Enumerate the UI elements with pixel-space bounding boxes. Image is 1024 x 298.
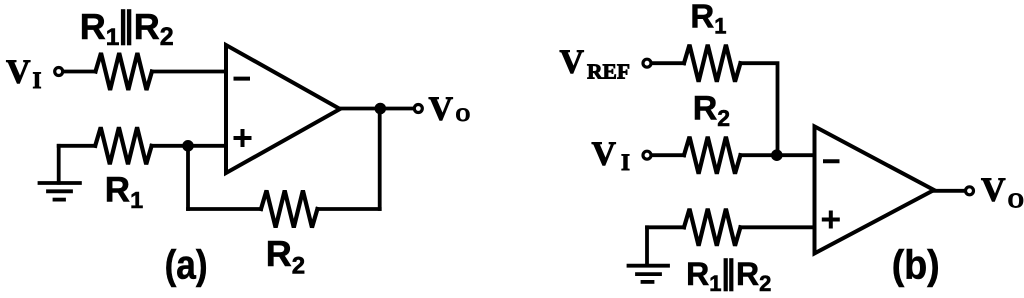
- wire: R1||R2 to non-inverting input (b): [740, 225, 814, 229]
- svg-text:O: O: [456, 105, 471, 126]
- resistor R2 (a) feedback: [261, 191, 317, 228]
- minus sign (a): [236, 77, 249, 81]
- wire: resistor to op-amp inverting input (a): [152, 70, 226, 74]
- svg-text:R1: R1: [105, 171, 143, 213]
- ground (a): [57, 146, 61, 183]
- svg-text:V: V: [429, 90, 454, 127]
- terminal VI (b): [643, 151, 651, 159]
- svg-text:R2: R2: [736, 256, 771, 296]
- svg-text:(a): (a): [165, 242, 208, 288]
- resistor R1 (b): [684, 45, 740, 82]
- wire: Vi to R1||R2 resistor (a): [63, 70, 96, 74]
- svg-text:V: V: [560, 43, 585, 80]
- node: summing junction (b): [771, 149, 783, 161]
- terminal VO (b): [966, 187, 974, 195]
- wire: feedback bottom left (a): [188, 207, 261, 211]
- node: + input junction (a): [182, 140, 194, 152]
- resistor R2 (b): [684, 137, 740, 174]
- minus sign (b): [825, 159, 838, 163]
- svg-text:R2: R2: [266, 233, 305, 280]
- wire: ground to R1 (a): [59, 144, 95, 148]
- wire: R2 to inverting input (b): [740, 153, 814, 157]
- svg-text:REF: REF: [587, 60, 630, 84]
- wire: VI to R2 (b): [652, 153, 685, 157]
- wire: VREF to R1 (b): [652, 61, 685, 65]
- terminal VO (a): [414, 105, 422, 113]
- plus sign (a): [236, 131, 250, 145]
- node: output junction (a): [375, 103, 387, 115]
- svg-text:R1: R1: [686, 256, 721, 296]
- terminal VREF (b): [643, 59, 651, 67]
- wire: down from + node (a): [186, 146, 190, 209]
- svg-text:R2: R2: [134, 6, 174, 51]
- ground (b): [645, 227, 649, 265]
- wire: R1 to non-inverting input (a): [152, 144, 226, 148]
- wire: ground to R1||R2 (b): [647, 225, 684, 229]
- wire: op-amp output (b): [934, 189, 965, 193]
- resistor R1 (a): [95, 127, 151, 164]
- wire: feedback up to output (a): [378, 109, 382, 210]
- svg-text:V: V: [592, 136, 617, 173]
- terminal VI (a): [55, 68, 63, 76]
- wire: R1 right then down to summing node (b): [740, 63, 777, 155]
- svg-text:R2: R2: [693, 90, 730, 131]
- op-amp U1 (a): [226, 45, 340, 173]
- svg-text:V: V: [981, 172, 1006, 209]
- resistor R1||R2 (a) input: [96, 53, 152, 90]
- op-amp U2 (b): [815, 126, 935, 253]
- svg-text:V: V: [6, 54, 31, 91]
- resistor R1||R2 (b): [684, 209, 740, 246]
- svg-text:R1: R1: [80, 6, 120, 51]
- svg-text:(b): (b): [892, 242, 940, 288]
- svg-text:O: O: [1008, 188, 1024, 212]
- wire: op-amp output (a): [340, 107, 413, 111]
- wire: feedback bottom right (a): [317, 207, 379, 211]
- svg-text:I: I: [621, 150, 630, 175]
- svg-text:R1: R1: [690, 0, 726, 39]
- plus sign (b): [824, 213, 838, 227]
- svg-text:I: I: [33, 68, 42, 93]
